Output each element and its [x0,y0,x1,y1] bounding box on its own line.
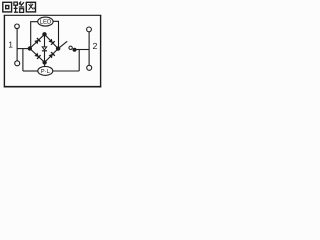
wire: LED oval left lead down to bridge left vertex [31,22,38,49]
wire: lamp oval to right riser [53,70,79,72]
node: bridge bottom vertex junction [42,60,46,64]
svg-text:1: 1 [8,40,13,50]
diode D3 on bottom-left edge (pointing to bottom vertex) [34,52,40,58]
wire: LED oval right lead down to bridge right vertex [53,21,59,48]
pilot lamp P·L oval [38,66,53,75]
wire: bridge edge top-left [30,34,45,48]
wire: P·L branch to lamp oval [23,70,38,72]
wire: terminal 1 to bridge left vertex [17,48,30,50]
wire: bridge edge bottom-right [45,49,59,63]
LED chip diode in bridge center (triangle + bar) [42,47,47,51]
title 回路図 (circuit diagram) drawn as strokes [3,1,36,12]
wire: bridge center branch lower [44,51,46,63]
wire: bridge edge top-right [45,34,59,48]
svg-text:P·L: P·L [41,69,51,75]
terminal 2 bottom circle [87,65,92,70]
switch S1 blade [59,41,68,48]
diode D4 on bottom-right edge (pointing to right vertex) [48,52,54,58]
wire: P·L left branch down [22,49,24,71]
LED oval [38,17,53,26]
switch S1 fixed contact circle [69,46,72,49]
wire: stub bottom vertex to lamp oval [44,63,46,67]
node: bridge top vertex junction [42,32,46,36]
diode D2 on top-right edge (pointing to right vertex) [48,38,54,44]
terminal 1 top circle [15,24,20,29]
node: bridge right vertex junction (switch input) [56,46,60,50]
svg-text:LED: LED [40,19,52,26]
node: switch output junction [73,48,77,52]
wire: terminal 1 vertical [16,29,18,61]
terminal 2 top circle [87,27,92,32]
outer border frame [4,15,101,87]
kanji 回 [3,2,12,12]
diode D1 on top-left edge (pointing to left vertex) [34,38,40,44]
wire: bridge center branch upper [44,34,46,47]
svg-text:2: 2 [93,41,98,51]
terminal 1 bottom circle [15,61,20,66]
kanji 図 [26,2,35,12]
wire: terminal 2 vertical [88,32,90,65]
wire: bridge edge bottom-left [30,49,45,63]
wire: switch output to terminal 2 [75,49,89,51]
diode bridge diamond edges [30,34,58,62]
wire: right riser up to switch output [78,50,80,72]
kanji 路 [14,1,25,12]
node: bridge left vertex junction [28,46,32,50]
